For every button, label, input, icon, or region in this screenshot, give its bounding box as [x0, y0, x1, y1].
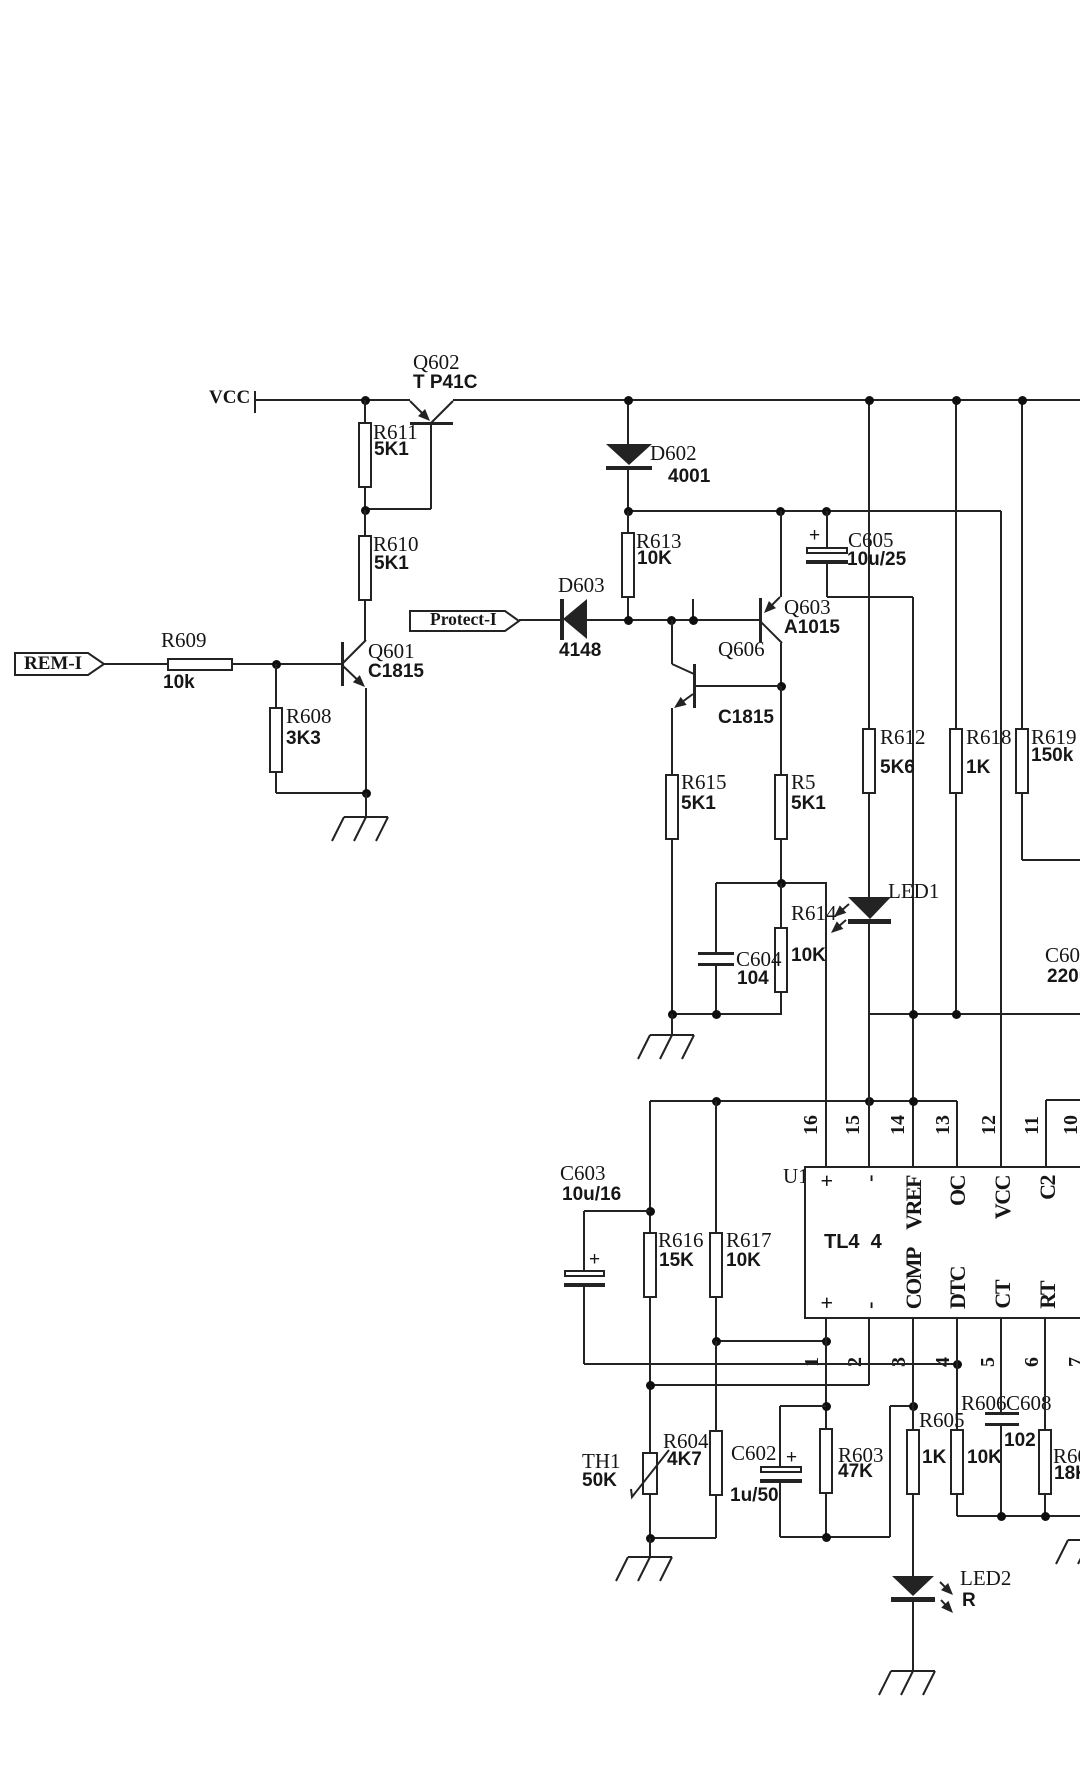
pin number 4	[932, 1357, 955, 1367]
capacitor C603 designator	[560, 1163, 606, 1184]
resistor R612 value 5K6	[880, 758, 915, 777]
junction node VCC-D602	[624, 396, 633, 405]
capacitor C605 designator	[848, 530, 894, 551]
pin number 16	[800, 1115, 823, 1135]
wire B C603-pin4	[584, 1363, 957, 1365]
junction node emitter-ground	[362, 789, 371, 798]
transistor Q602 designator	[413, 352, 460, 373]
resistor R609	[167, 658, 233, 671]
capacitor C608 designator	[1006, 1393, 1052, 1414]
pin name C2 (11)	[1035, 1176, 1060, 1200]
junction node bus-pin14	[909, 1097, 918, 1106]
pin number 11	[1021, 1116, 1044, 1135]
resistor R608 value 3K3	[286, 729, 321, 748]
junction node bus-R617	[712, 1097, 721, 1106]
resistor R606 designator	[961, 1393, 1007, 1414]
resistor R618 designator	[966, 727, 1012, 748]
diode D602	[627, 400, 629, 444]
diode D603 value 4148	[559, 641, 601, 660]
resistor R609 designator	[161, 630, 207, 651]
wire Q606 emitter	[671, 708, 673, 774]
junction node VCC-R612	[865, 396, 874, 405]
wire R608 bottom to emitter	[276, 792, 366, 794]
LED LED2 designator	[960, 1568, 1011, 1589]
IC U1 TL494 body	[804, 1166, 1080, 1319]
wire C602 top link	[780, 1405, 826, 1407]
wire TH1-R604 bottom	[650, 1537, 716, 1539]
resistor R616 value 15K	[659, 1251, 694, 1270]
transistor Q606 designator	[718, 639, 765, 660]
resistor R619	[1021, 400, 1023, 728]
junction node wireD-pin3	[909, 1402, 918, 1411]
resistor R610 designator	[373, 534, 419, 555]
capacitor C604 designator	[736, 949, 782, 970]
capacitor C607 designator	[1045, 945, 1080, 966]
resistor R617 value 10K	[726, 1251, 761, 1270]
capacitor C602 value 1u/50	[730, 1486, 779, 1505]
junction node R5-R614	[777, 879, 786, 888]
thermistor TH1 designator	[582, 1451, 621, 1472]
pin name VREF (14)	[901, 1176, 926, 1230]
wire R609 to Q601 base	[233, 663, 341, 665]
wire Q601 collector	[364, 640, 366, 642]
resistor R615 value 5K1	[681, 794, 716, 813]
wire F C602-R603 bottoms	[780, 1536, 890, 1538]
LED LED1	[847, 896, 892, 920]
diode D603 designator	[558, 575, 605, 596]
resistor R618	[955, 400, 957, 728]
resistor R619 value 150k	[1031, 746, 1073, 765]
capacitor C604 value 104	[737, 969, 769, 988]
capacitor C602 designator	[731, 1443, 777, 1464]
junction node bus-pin15	[865, 1097, 874, 1106]
wire pin16 column	[825, 883, 827, 1167]
resistor R604 value 4K7	[667, 1450, 702, 1469]
wire Q603 collector	[780, 643, 782, 686]
capacitor C603 value 10u/16	[562, 1185, 621, 1204]
transistor Q601 designator	[368, 641, 415, 662]
LED LED1 light arrows	[832, 902, 851, 919]
wire C603 top	[584, 1210, 650, 1212]
wire C605 bottom jog	[827, 596, 913, 598]
wire bus left drop	[649, 1101, 651, 1232]
wire pin2 stub	[868, 1319, 870, 1385]
resistor R616	[643, 1232, 657, 1298]
capacitor C607 value 220u	[1047, 967, 1080, 986]
wire pin1 column	[825, 1319, 827, 1428]
ground below LED2	[891, 1670, 935, 1672]
resistor R607 designator	[1053, 1446, 1080, 1467]
port flag REM-I	[14, 652, 106, 676]
pin number 10	[1060, 1115, 1080, 1135]
resistor R604 designator	[663, 1431, 709, 1452]
wire pin15 column	[868, 923, 870, 1167]
wire E analog ground rail	[957, 1515, 1080, 1517]
wire VCC bus right segment	[453, 399, 1080, 401]
resistor R5 designator	[791, 772, 816, 793]
transistor Q606 (NPN, left-facing)	[693, 664, 696, 708]
capacitor C608 value 102	[1004, 1431, 1036, 1450]
LED LED2	[891, 1575, 935, 1597]
junction node Q603c-Q606b-R5	[777, 682, 786, 691]
wire Protect-I to D603	[519, 619, 561, 621]
wire R604 column	[715, 1341, 717, 1430]
transistor Q602 value T P41C	[413, 373, 477, 392]
LED LED2 value R	[962, 1591, 976, 1610]
junction node C608-wireE	[997, 1512, 1006, 1521]
resistor R5 value 5K1	[791, 794, 826, 813]
thermistor TH1	[642, 1452, 658, 1495]
stub above protect wire	[692, 599, 694, 620]
resistor R606	[950, 1429, 964, 1495]
resistor R605	[906, 1429, 920, 1495]
wire C TH1-pin2	[650, 1384, 869, 1386]
pin number 14	[887, 1115, 910, 1135]
resistor R614 designator	[791, 903, 837, 924]
pin name + (1)	[814, 1298, 839, 1309]
wire REM-I to R609	[104, 663, 167, 665]
junction node R615-ground	[668, 1010, 677, 1019]
junction node VCC-R618	[952, 396, 961, 405]
junction node VCC-R611	[361, 396, 370, 405]
transistor Q606 value C1815	[718, 708, 774, 727]
resistor R612	[868, 400, 870, 728]
junction node D602-R613	[624, 507, 633, 516]
wire bus corner to pin13	[956, 1101, 958, 1167]
resistor R607 value 18K	[1054, 1464, 1080, 1483]
transistor Q603 designator	[784, 597, 831, 618]
wire Q606 base	[696, 685, 780, 687]
pin name - (15)	[857, 1176, 882, 1182]
pin name + (16)	[814, 1176, 839, 1187]
resistor R608	[275, 664, 277, 707]
resistor R612 designator	[880, 727, 926, 748]
resistor R605 value 1K	[922, 1448, 946, 1467]
resistor R609 value 10k	[163, 673, 195, 692]
IC U1 designator	[783, 1166, 809, 1187]
junction node pin1-C602top	[822, 1402, 831, 1411]
wire LED cathode rail	[869, 1013, 1080, 1015]
junction node C603-R616	[646, 1207, 655, 1216]
wire pin4 stub	[956, 1319, 958, 1429]
pin name OC (13)	[945, 1176, 970, 1206]
wire Q603 emitter	[780, 511, 782, 597]
pin name DTC (4)	[945, 1267, 970, 1309]
resistor R5	[780, 686, 782, 774]
junction node Q606 collector tap	[667, 616, 676, 625]
pin number 15	[842, 1115, 865, 1135]
pin name VCC (12)	[990, 1176, 1015, 1219]
junction node wireB-pin4	[953, 1360, 962, 1369]
pin number 1	[801, 1357, 824, 1367]
thermistor TH1 value 50K	[582, 1471, 617, 1490]
resistor R603 value 47K	[838, 1462, 873, 1481]
resistor R614	[780, 883, 782, 927]
junction node TH1-ground	[646, 1534, 655, 1543]
resistor R608 designator	[286, 706, 332, 727]
capacitor C603 plus sign	[589, 1250, 600, 1269]
junction node wireA-pin1	[822, 1337, 831, 1346]
pin number 7	[1065, 1357, 1080, 1367]
wire A R617-pin1	[716, 1340, 826, 1342]
diode D603	[560, 599, 564, 640]
wire pin11 riser	[1045, 1100, 1047, 1167]
ground below TH1	[649, 1538, 651, 1557]
wire pin6 stub	[1044, 1319, 1046, 1429]
junction node stub	[689, 616, 698, 625]
resistor R607	[1038, 1429, 1052, 1495]
wire sub-VCC rail y511	[628, 510, 1001, 512]
junction node R603-wireF	[822, 1533, 831, 1542]
net label VCC	[209, 388, 250, 407]
resistor R604	[709, 1430, 723, 1496]
capacitor C602 plus sign	[786, 1448, 797, 1467]
transistor Q603 (PNP)	[759, 598, 762, 642]
resistor R618 value 1K	[966, 758, 990, 777]
resistor R613	[627, 511, 629, 532]
transistor Q602 (PNP series pass)	[410, 422, 453, 425]
junction node C604-ground	[712, 1010, 721, 1019]
resistor R606 value 10K	[967, 1448, 1002, 1467]
capacitor C604	[715, 883, 717, 952]
resistor R615 designator	[681, 772, 727, 793]
junction node R607-wireE	[1041, 1512, 1050, 1521]
resistor R619 designator	[1031, 727, 1077, 748]
port flag Protect-I	[409, 610, 521, 633]
ground below Q601	[365, 793, 367, 817]
junction node wireC-TH1col	[646, 1381, 655, 1390]
resistor R603 designator	[838, 1445, 884, 1466]
wire Q602 base to R611 node	[364, 508, 431, 510]
ground at right edge	[1068, 1539, 1080, 1541]
resistor R613 designator	[636, 531, 682, 552]
transistor Q601 (NPN)	[341, 642, 344, 686]
pin number 6	[1021, 1357, 1044, 1367]
junction node R617-wireA	[712, 1337, 721, 1346]
pin name CT (5)	[990, 1281, 1015, 1309]
ground below R615	[671, 1014, 673, 1035]
resistor R603	[819, 1428, 833, 1494]
junction node rail-pin14 column	[909, 1010, 918, 1019]
IC U1 part number TL4 4	[824, 1232, 882, 1252]
resistor R611 value 5K1	[374, 440, 409, 459]
junction node VCC-R619	[1018, 396, 1027, 405]
wire D603 to Q603 base	[587, 619, 760, 621]
junction node rail-Q603 emitter	[776, 507, 785, 516]
resistor R617 designator	[726, 1230, 772, 1251]
capacitor C608	[1000, 1319, 1002, 1412]
resistor R614 value 10K	[791, 946, 826, 965]
resistor R605 designator	[919, 1410, 965, 1431]
wire Q606 collector	[671, 620, 673, 664]
junction node R611-R610-Q602	[361, 506, 370, 515]
junction node rail-C605	[822, 507, 831, 516]
resistor R611	[364, 400, 366, 422]
pin name - (2)	[857, 1303, 882, 1309]
capacitor C605 plus sign	[809, 526, 820, 545]
capacitor C605 value 10u/25	[847, 550, 906, 569]
pin number 5	[977, 1357, 1000, 1367]
wire bus above chip	[650, 1100, 957, 1102]
resistor R617	[715, 1101, 717, 1232]
wire C605 net down to pin14	[912, 597, 914, 1167]
transistor Q601 value C1815	[368, 662, 424, 681]
wire R619 bottom to edge	[1022, 859, 1080, 861]
resistor R616 designator	[658, 1230, 704, 1251]
wire pin12 column	[1000, 511, 1002, 1167]
LED LED2 light arrows	[938, 1580, 955, 1597]
pin name RT (6)	[1035, 1282, 1060, 1309]
pin name COMP (3)	[901, 1248, 926, 1309]
pin number 12	[978, 1115, 1001, 1135]
pin number 13	[932, 1115, 955, 1135]
junction node base-R608	[272, 660, 281, 669]
wire node-16 rail	[716, 882, 827, 884]
diode D602 value 4001	[668, 467, 710, 486]
resistor R610 value 5K1	[374, 554, 409, 573]
capacitor C605 (electrolytic)	[826, 511, 828, 547]
diode D602 designator	[650, 443, 697, 464]
wire D pin3 branch	[890, 1405, 913, 1407]
pin number 2	[844, 1357, 867, 1367]
resistor R613 value 10K	[637, 549, 672, 568]
transistor Q603 value A1015	[784, 618, 840, 637]
wire pin3 stub	[912, 1319, 914, 1429]
resistor R615	[665, 774, 679, 840]
resistor R610	[364, 510, 366, 535]
LED LED1 designator	[888, 881, 939, 902]
wire Q601 emitter	[365, 688, 367, 793]
junction node R613-protect	[624, 616, 633, 625]
resistor R611 designator	[373, 422, 418, 443]
pin number 3	[888, 1357, 911, 1367]
capacitor C603 (electrolytic)	[583, 1211, 585, 1270]
wire ground rail left	[672, 1013, 782, 1015]
junction node rail-R618	[952, 1010, 961, 1019]
wire VCC bus left segment	[255, 399, 410, 401]
capacitor C602 (electrolytic)	[779, 1406, 781, 1466]
